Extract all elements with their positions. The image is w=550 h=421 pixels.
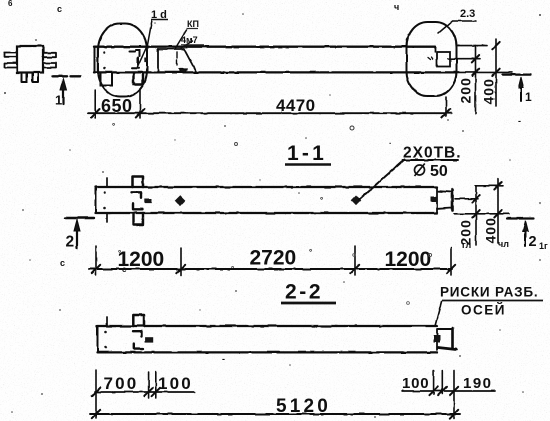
svg-text:5120: 5120: [276, 396, 331, 417]
section mark 1 (right): [503, 75, 531, 101]
svg-text:РИСКИ РАЗБ.: РИСКИ РАЗБ.: [440, 285, 538, 300]
svg-text:100: 100: [158, 374, 193, 393]
svg-text:-: -: [518, 116, 521, 126]
callout diameter 50: [415, 163, 448, 180]
node: embedded plate marks left end: [103, 50, 139, 69]
dimension row 700/100 (left): [92, 370, 195, 418]
svg-text:2: 2: [66, 234, 75, 251]
dimension 5120: [90, 410, 460, 418]
node: console trapezoid on elevation: [144, 49, 196, 72]
svg-text:чл: чл: [498, 239, 509, 249]
svg-text:1200: 1200: [385, 248, 432, 271]
node: cross-section detail square: [5, 46, 57, 82]
svg-text:°: °: [309, 248, 312, 257]
svg-text:2.3: 2.3: [460, 8, 475, 20]
svg-text:6: 6: [8, 0, 13, 8]
svg-text:.: .: [389, 137, 391, 146]
node: console tabs below body: [101, 73, 144, 86]
node: 2-2 left marks: [104, 315, 153, 349]
node: 1-1 right connector: [431, 187, 453, 213]
svg-text:1: 1: [525, 90, 532, 104]
svg-text:700: 700: [104, 374, 139, 393]
node: 2-2 right connector: [434, 328, 457, 350]
dimension 650: [88, 90, 452, 118]
svg-text:с: с: [60, 258, 65, 268]
dimension row 1200/2720/1200: [89, 246, 455, 275]
dimension row 100/190 (right): [402, 370, 495, 418]
node: right detail ellipse: [407, 22, 457, 96]
svg-text:2: 2: [529, 234, 537, 250]
svg-text:°: °: [118, 249, 121, 258]
node: right end plate detail: [428, 47, 450, 67]
svg-text:°: °: [231, 265, 234, 274]
node: 1-1 left marks: [103, 177, 152, 225]
svg-text:190: 190: [463, 375, 493, 392]
dimension 200/400 (section 1-1): [454, 179, 509, 245]
section 1-1 bar: [96, 187, 438, 213]
svg-text:°: °: [112, 122, 115, 131]
svg-text:650: 650: [101, 96, 133, 116]
node: hole diamond 1: [175, 196, 186, 207]
svg-text:1: 1: [55, 93, 62, 108]
node: hole diamond 2: [351, 195, 362, 206]
svg-text:400: 400: [481, 78, 497, 104]
svg-text:4м7: 4м7: [181, 35, 198, 45]
wire: elevation body top/bottom lines: [94, 47, 456, 73]
section mark 2 (right): [507, 219, 534, 247]
svg-text:50: 50: [430, 163, 448, 180]
section 2-2 bar: [97, 326, 438, 352]
svg-text:200: 200: [458, 77, 474, 103]
svg-text:с: с: [122, 265, 127, 274]
svg-text:2-2: 2-2: [285, 281, 323, 304]
svg-text:2720: 2720: [250, 247, 297, 270]
svg-text:4470: 4470: [276, 96, 315, 115]
wire: leader to label 2.3: [439, 21, 477, 33]
svg-text:1-1: 1-1: [287, 142, 327, 165]
svg-text:гл: гл: [462, 240, 472, 250]
section mark 2 (left): [66, 218, 95, 248]
wire: leader to label 1d: [138, 20, 153, 67]
svg-text:°: °: [320, 196, 323, 205]
svg-text:400: 400: [483, 217, 499, 243]
wire: leaders to console labels: [176, 30, 187, 48]
wire: leader РИСКИ: [435, 302, 442, 327]
svg-text:-: -: [222, 354, 225, 364]
node: left detail ellipse: [98, 24, 147, 97]
svg-text:ОСЕЙ: ОСЕЙ: [461, 303, 506, 318]
section mark 1 (left): [53, 76, 81, 104]
svg-text:1г: 1г: [539, 241, 548, 251]
svg-text:с: с: [57, 4, 62, 14]
dimension 200/400 top right: [448, 39, 512, 115]
svg-text:ч: ч: [394, 2, 399, 12]
svg-text:2Х0ТВ.: 2Х0ТВ.: [403, 145, 462, 162]
svg-text:КП: КП: [187, 19, 199, 29]
wire: leader 2xOTB: [359, 160, 405, 200]
svg-text:100: 100: [402, 375, 429, 392]
